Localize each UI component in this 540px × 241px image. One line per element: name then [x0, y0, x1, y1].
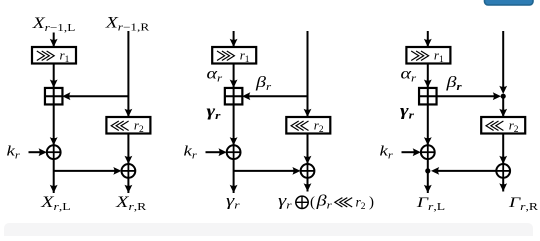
wire: top input into rotate box (diag2)	[230, 31, 238, 47]
blue button fragment top-right	[485, 0, 534, 5]
xor with key (diag1)	[47, 145, 61, 159]
rotate box >>> r1 (diag3)	[406, 47, 450, 65]
wire: fork to right xor (diag2)	[234, 167, 301, 175]
svg-text:Xr,R: Xr,R	[115, 193, 147, 213]
junction dot bottom (diag3)	[425, 168, 430, 173]
wire: right branch into adder (diag2)	[242, 92, 307, 100]
label X_{r,L}	[40, 193, 70, 213]
rotate box >>> r1 (diag1)	[32, 47, 76, 65]
wire: k_r into xor (diag2)	[206, 148, 227, 156]
svg-text:Xr−1,R: Xr−1,R	[105, 13, 149, 33]
wire: r2 box into right xor	[125, 135, 133, 165]
footer gray band	[4, 223, 533, 241]
wire: X_{r-1,L} into rotate box	[50, 33, 58, 48]
junction dot top (diag3)	[501, 94, 506, 99]
wire: right branch from top into junction (diag3)	[499, 31, 507, 94]
wire: right xor down to Gamma_{r,R} (diag3)	[499, 178, 507, 192]
right xor (diag3)	[496, 164, 510, 178]
wire: top input into rotate box (diag3)	[424, 31, 432, 47]
right xor (diag1)	[121, 164, 135, 178]
svg-text:r2: r2	[356, 195, 366, 213]
wire: adder to key xor	[50, 105, 58, 146]
label Gamma_{r,R}	[508, 194, 539, 213]
wire: r2 box into right xor (diag3)	[499, 135, 507, 165]
rotate box <<< r2 (diag1)	[106, 117, 150, 135]
svg-text:Xr−1,L: Xr−1,L	[32, 14, 76, 34]
label beta_r	[255, 73, 272, 93]
wire: fork to right xor	[54, 167, 122, 175]
right xor (diag2)	[301, 164, 315, 178]
svg-text:βr: βr	[445, 73, 462, 93]
svg-text:): )	[369, 195, 374, 211]
svg-text:(: (	[310, 195, 315, 211]
label Gamma_{r,L}	[416, 194, 445, 213]
svg-text:kr: kr	[184, 142, 198, 161]
svg-text:γr: γr	[226, 192, 240, 211]
svg-text:γr: γr	[400, 102, 414, 121]
wire: r2 box into right xor (diag2)	[304, 135, 312, 165]
label gamma_r bold	[207, 102, 221, 121]
label k_r (diag3)	[380, 142, 394, 161]
wire: rotate box to modular adder	[50, 64, 58, 88]
svg-text:βr: βr	[315, 191, 332, 211]
wire: adder to key xor (diag3)	[424, 105, 432, 146]
svg-text:βr: βr	[255, 73, 272, 93]
svg-text:Xr,L: Xr,L	[40, 193, 70, 213]
label gamma_r bold (diag3)	[400, 102, 414, 121]
wire: xor output down to X_{r,L}	[50, 159, 58, 193]
wire: junction down into rotate box r2 (diag3)	[499, 96, 507, 117]
label gamma_r output	[226, 192, 240, 211]
modular adder (diag1)	[45, 88, 63, 105]
svg-text:Γr,L: Γr,L	[416, 194, 445, 213]
wire: right xor down to output label (diag2)	[304, 178, 312, 192]
wire: adder to key xor (diag2)	[230, 105, 238, 146]
wire: rotate box to adder (diag3)	[424, 64, 432, 88]
label k_r (diag2)	[184, 142, 198, 161]
label alpha_r	[207, 64, 223, 84]
wire: right branch from X_{r-1,R} down to rotate box r2	[125, 31, 133, 117]
modular adder (diag3)	[419, 88, 437, 105]
wire: rotate box to adder (diag2)	[230, 64, 238, 88]
modular adder (diag2)	[225, 88, 243, 105]
label k_r	[7, 142, 21, 161]
svg-text:kr: kr	[380, 142, 394, 161]
rotate box >>> r1 (diag2)	[212, 47, 256, 65]
label beta_r bold (diag3)	[445, 73, 462, 93]
label X_{r-1,L}	[32, 14, 76, 34]
wire: right xor output left into junction (diag3)	[431, 167, 496, 175]
label X_{r-1,R}	[105, 13, 149, 33]
label alpha_r (diag3)	[401, 64, 417, 84]
wire: right xor down to X_{r,R}	[125, 178, 133, 193]
svg-text:Γr,R: Γr,R	[508, 194, 539, 213]
wire: k_r into xor	[29, 148, 47, 156]
svg-text:αr: αr	[207, 64, 223, 84]
label gamma_r xor (beta_r <<< r2)	[278, 191, 374, 212]
xor with key (diag2)	[227, 145, 241, 159]
wire: xor output down to gamma_r (diag2)	[230, 159, 238, 193]
wire: right branch down to rotate box r2 (diag2)	[304, 31, 312, 117]
svg-text:γr: γr	[207, 102, 221, 121]
svg-text:kr: kr	[7, 142, 21, 161]
wire: right branch into modular adder	[62, 92, 128, 100]
wire: k_r into xor (diag3)	[402, 148, 421, 156]
xor with key (diag3)	[421, 145, 435, 159]
rotate box <<< r2 (diag2)	[286, 117, 330, 135]
svg-text:αr: αr	[401, 64, 417, 84]
wire: adder output right into junction (diag3)	[436, 92, 501, 100]
wire: xor down through junction to Gamma_{r,L} (diag3)	[424, 159, 432, 193]
rotate box <<< r2 (diag3)	[481, 117, 525, 135]
svg-text:γr: γr	[278, 192, 292, 211]
label X_{r,R}	[115, 193, 147, 213]
